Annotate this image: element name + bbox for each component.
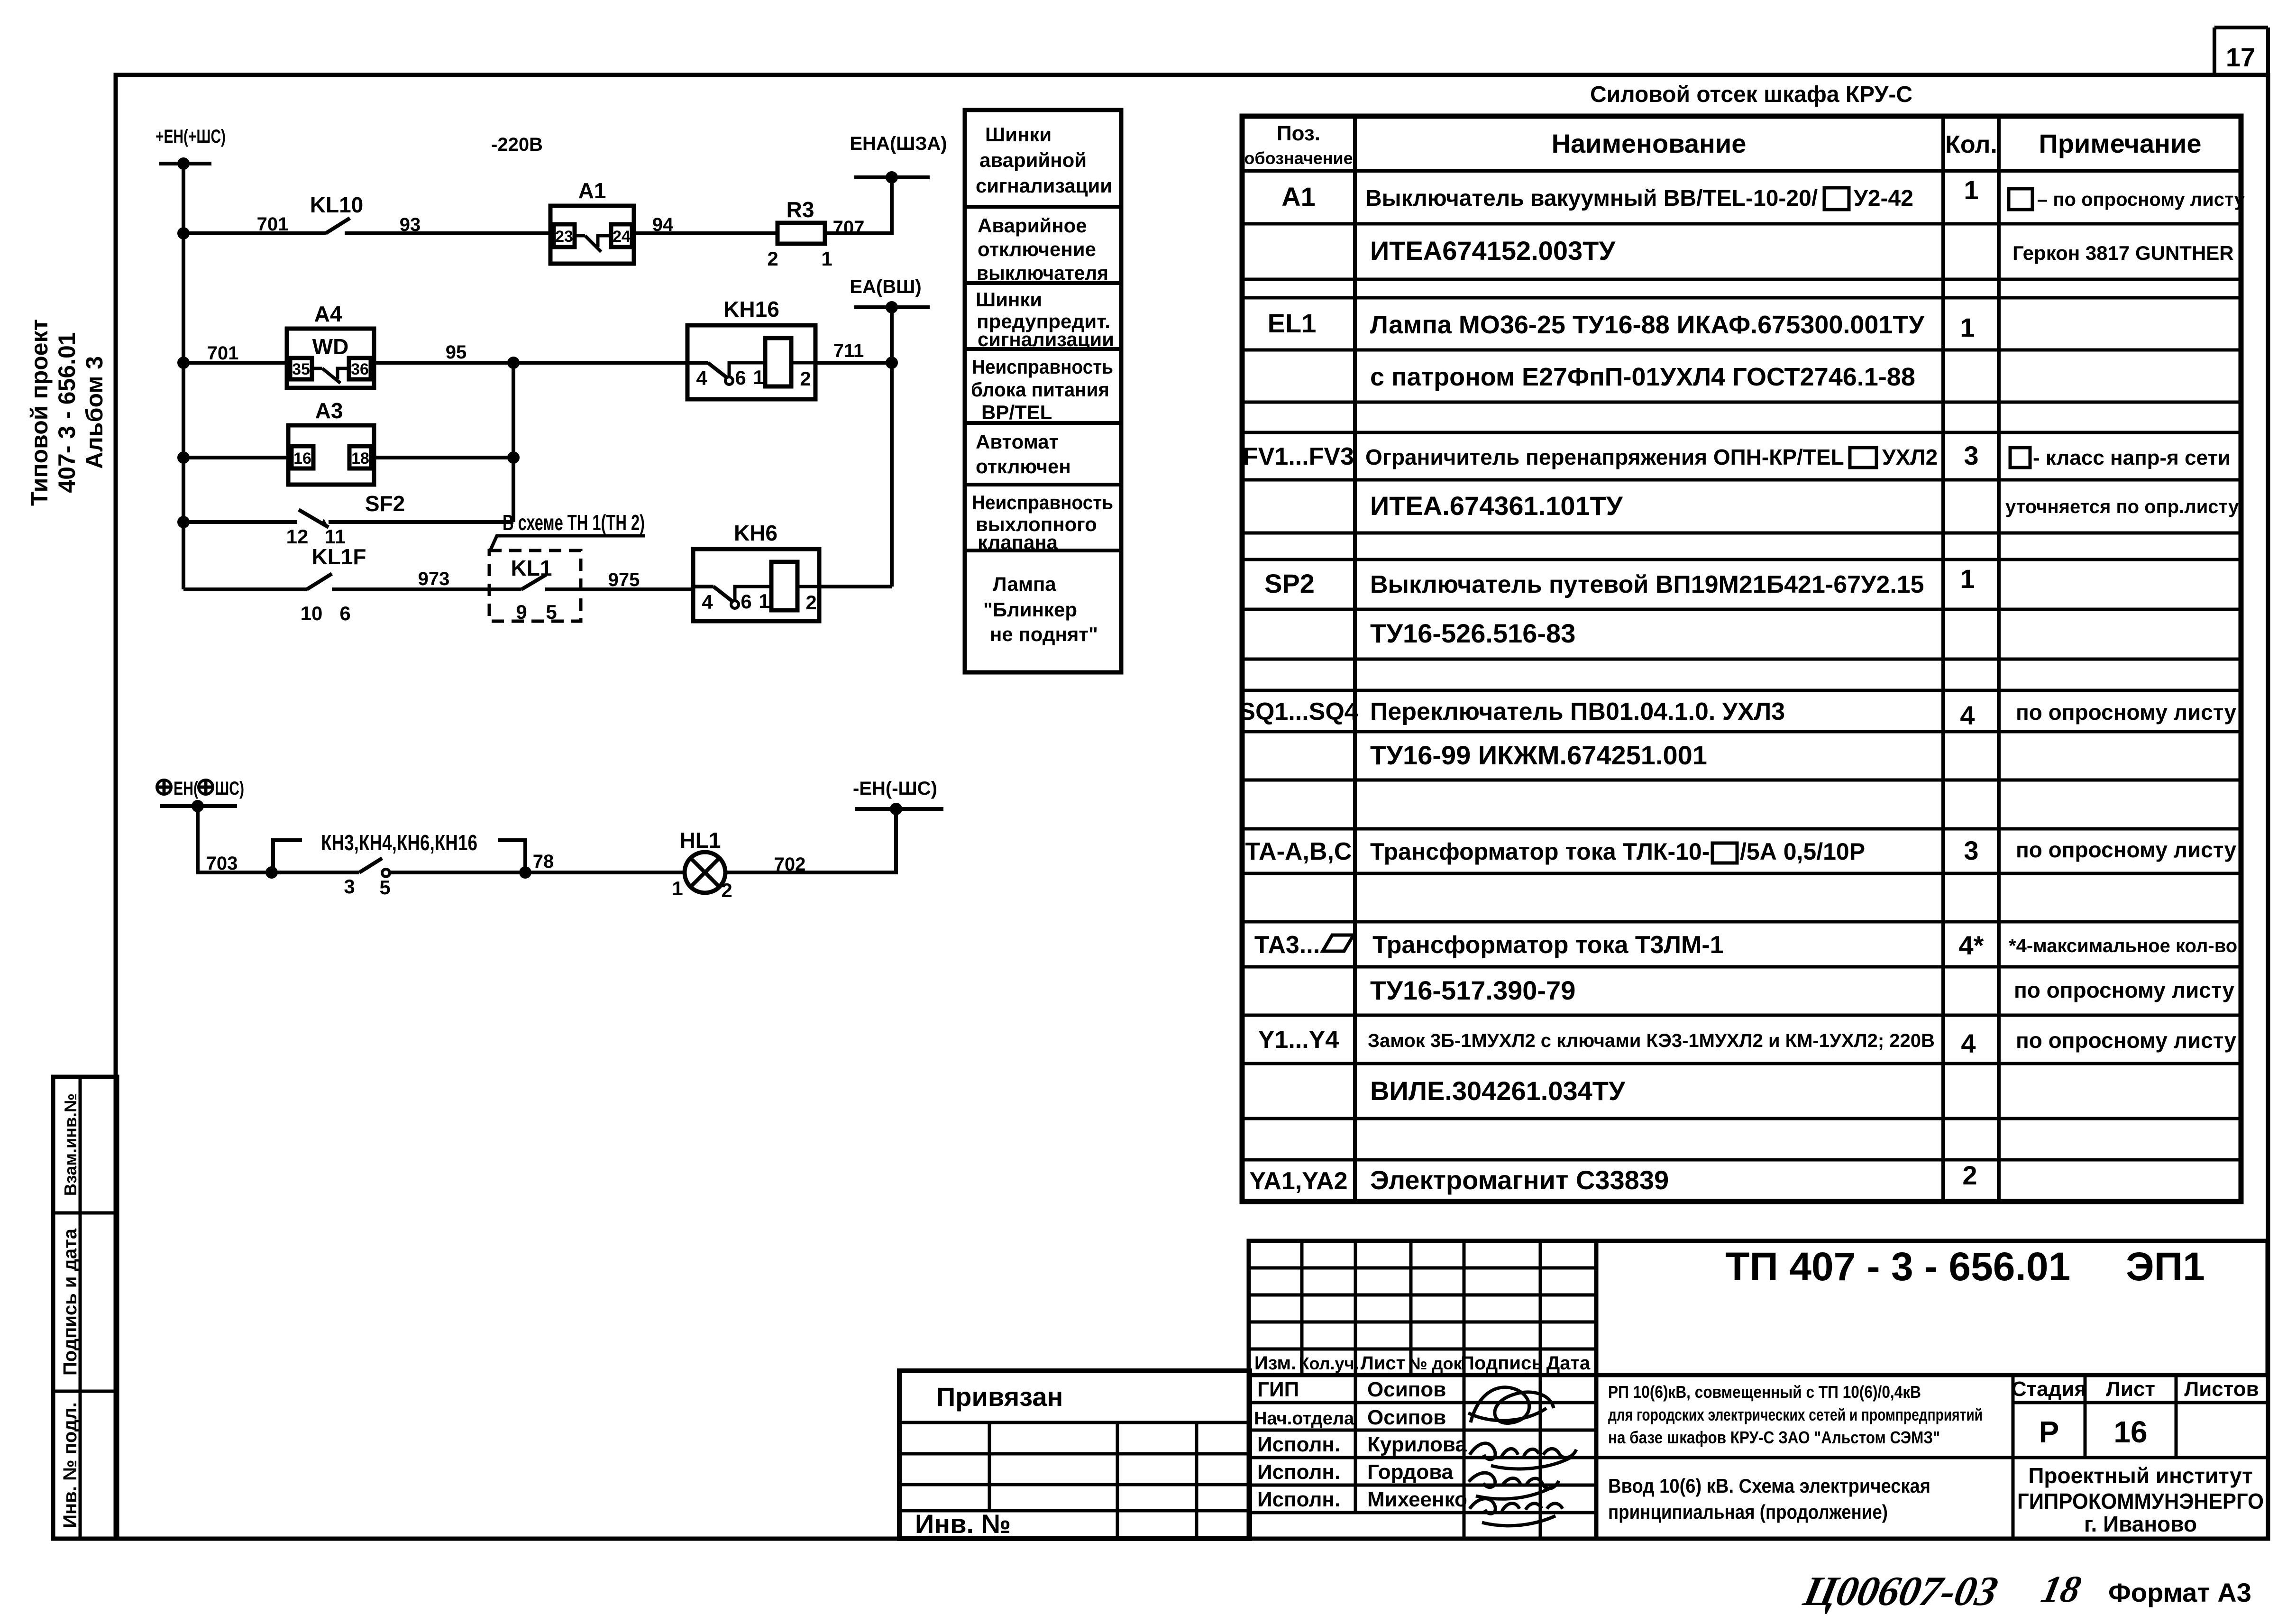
wire 707 — [825, 177, 892, 233]
svg-text:ГИП: ГИП — [1257, 1378, 1299, 1401]
svg-text:10: 10 — [301, 602, 323, 624]
svg-text:ТА3...: ТА3... — [1254, 931, 1320, 959]
svg-text:Лист: Лист — [1361, 1353, 1406, 1374]
sidebar project label (rotated) — [26, 319, 108, 506]
power supply unit A4 — [287, 302, 374, 388]
svg-text:Дата: Дата — [1546, 1353, 1591, 1374]
svg-text:701: 701 — [207, 343, 239, 364]
table header — [1244, 122, 2201, 168]
svg-text:SP2: SP2 — [1264, 569, 1315, 598]
svg-text:Листов: Листов — [2184, 1377, 2259, 1401]
svg-text:17: 17 — [2226, 42, 2255, 72]
svg-text:Аварийное: Аварийное — [978, 214, 1087, 237]
handwritten inventory number — [1799, 1569, 2085, 1615]
svg-text:16: 16 — [2113, 1415, 2147, 1449]
switch unit A1 — [550, 178, 634, 264]
svg-text:Взам.инв.№: Взам.инв.№ — [61, 1093, 80, 1196]
svg-text:KH6: KH6 — [734, 521, 778, 545]
wire 701 row2 — [183, 361, 287, 365]
wire 973 — [332, 587, 489, 591]
svg-text:SF2: SF2 — [365, 491, 405, 516]
svg-text:У2-42: У2-42 — [1854, 186, 1913, 211]
svg-text:HL1: HL1 — [680, 828, 721, 853]
contact КН3,КН4,КН6,КН16 — [321, 830, 477, 899]
svg-text:Осипов: Осипов — [1367, 1378, 1446, 1401]
svg-text:Электромагнит С33839: Электромагнит С33839 — [1370, 1165, 1669, 1195]
svg-text:Привязан: Привязан — [936, 1382, 1063, 1412]
svg-text:№ док.: № док. — [1409, 1354, 1467, 1373]
title block document number — [1596, 1241, 2268, 1375]
svg-text:ТА-А,В,С: ТА-А,В,С — [1245, 838, 1352, 865]
svg-text:по опросному листу: по опросному листу — [2014, 978, 2235, 1002]
wire vertical bus from +ЕН — [182, 164, 185, 589]
svg-text:Кол.уч.: Кол.уч. — [1299, 1354, 1359, 1373]
svg-text:95: 95 — [446, 342, 467, 363]
relay KH6 — [693, 521, 819, 621]
svg-text:Лампа: Лампа — [993, 573, 1056, 595]
svg-text:5: 5 — [379, 876, 390, 899]
junction node wire95/A3 — [507, 357, 520, 369]
svg-text:сигнализации: сигнализации — [976, 174, 1112, 197]
svg-text:Инв. № подл.: Инв. № подл. — [60, 1402, 81, 1528]
svg-text:выключателя: выключателя — [977, 262, 1108, 284]
svg-text:4*: 4* — [1959, 930, 1984, 960]
svg-text:2: 2 — [1962, 1160, 1977, 1190]
svg-text:Автомат: Автомат — [976, 431, 1059, 453]
svg-text:Исполн.: Исполн. — [1257, 1488, 1340, 1511]
svg-text:Неисправность: Неисправность — [972, 491, 1113, 514]
svg-text:принципиальная (продолжение): принципиальная (продолжение) — [1608, 1501, 1888, 1523]
svg-text:г. Иваново: г. Иваново — [2084, 1512, 2197, 1536]
svg-text:BP/TEL: BP/TEL — [981, 401, 1052, 423]
svg-text:Исполн.: Исполн. — [1257, 1433, 1340, 1456]
table column 4 entries — [2005, 189, 2245, 1053]
svg-text:Ц00607-03: Ц00607-03 — [1799, 1569, 2002, 1615]
contact KL10 — [310, 193, 363, 233]
title block revision table — [1249, 1241, 1596, 1375]
svg-text:Геркон 3817 GUNTHER: Геркон 3817 GUNTHER — [2012, 242, 2234, 264]
wire A3 to riser — [374, 456, 513, 459]
legend annotation box — [965, 110, 1121, 672]
svg-text:973: 973 — [418, 569, 450, 589]
svg-text:Нач.отдела: Нач.отдела — [1254, 1409, 1354, 1429]
svg-text:Ввод 10(6) кВ. Схема электриче: Ввод 10(6) кВ. Схема электрическая — [1608, 1475, 1930, 1497]
wire EA vertical — [890, 307, 894, 587]
svg-text:Формат А3: Формат А3 — [2108, 1578, 2251, 1607]
svg-text:2: 2 — [767, 248, 778, 270]
svg-text:4: 4 — [1960, 700, 1975, 730]
svg-text:УХЛ2: УХЛ2 — [1882, 445, 1938, 469]
svg-text:обозначение: обозначение — [1244, 148, 1353, 168]
node ЕНА(ШЗА) — [850, 133, 947, 184]
svg-text:ВИЛЕ.304261.034ТУ: ВИЛЕ.304261.034ТУ — [1370, 1076, 1626, 1106]
svg-text:клапана: клапана — [978, 531, 1058, 553]
svg-text:Наименование: Наименование — [1552, 128, 1747, 158]
svg-text:Курилова: Курилова — [1367, 1433, 1467, 1456]
svg-text:Ограничитель перенапряжения ОП: Ограничитель перенапряжения ОПН-КР/TEL — [1365, 445, 1844, 469]
wire 702 — [725, 809, 896, 872]
svg-text:703: 703 — [206, 853, 238, 874]
svg-text:ЕНА(ШЗА): ЕНА(ШЗА) — [850, 133, 947, 154]
svg-text:-220В: -220В — [491, 134, 543, 155]
title block description — [1596, 1375, 2013, 1539]
svg-text:93: 93 — [400, 214, 421, 235]
svg-text:2: 2 — [800, 367, 811, 390]
svg-text:36: 36 — [351, 360, 369, 378]
svg-text:/5А 0,5/10Р: /5А 0,5/10Р — [1740, 838, 1865, 865]
svg-text:6: 6 — [741, 590, 751, 613]
svg-text:ТУ16-526.516-83: ТУ16-526.516-83 — [1370, 618, 1575, 648]
relay KH16 — [687, 297, 815, 399]
svg-text:Выключатель путевой ВП19М21Б42: Выключатель путевой ВП19М21Б421-67У2.15 — [1370, 571, 1924, 598]
svg-text:1: 1 — [753, 366, 764, 388]
svg-text:ИТЕА674152.003ТУ: ИТЕА674152.003ТУ — [1370, 236, 1616, 266]
svg-text:2: 2 — [805, 591, 816, 614]
svg-text:Инв. №: Инв. № — [915, 1509, 1011, 1539]
wire 701 row1 — [183, 231, 326, 235]
svg-text:Гордова: Гордова — [1367, 1460, 1454, 1484]
svg-text:975: 975 — [608, 569, 640, 590]
table column 2 entries — [1365, 186, 1938, 1195]
wire to contact — [272, 871, 359, 874]
svg-text:1: 1 — [1960, 312, 1975, 342]
svg-text:6: 6 — [735, 367, 746, 389]
svg-text:707: 707 — [833, 217, 865, 238]
svg-text:4: 4 — [1961, 1028, 1976, 1058]
svg-text:отключение: отключение — [978, 238, 1096, 260]
svg-text:24: 24 — [613, 228, 631, 246]
unit A3 — [288, 398, 374, 485]
svg-text:5: 5 — [546, 601, 557, 623]
svg-text:-ЕН(-ШС): -ЕН(-ШС) — [853, 778, 937, 799]
svg-text:Кол.: Кол. — [1945, 131, 1997, 158]
svg-text:2: 2 — [721, 879, 732, 901]
svg-text:Примечание: Примечание — [2039, 128, 2201, 158]
relay contact KL1 (dashed box, in TH1/TH2 circuit) — [489, 551, 581, 623]
svg-text:сигнализации: сигнализации — [978, 328, 1114, 350]
svg-text:R3: R3 — [787, 197, 814, 222]
svg-text:6: 6 — [339, 602, 350, 624]
svg-text:на базе шкафов КРУ-С ЗАО "Альс: на базе шкафов КРУ-С ЗАО "Альстом СЭМЗ" — [1608, 1428, 1940, 1447]
title block signature rows — [1249, 1375, 1596, 1539]
wire 703 — [198, 806, 272, 872]
svg-text:для городских электрических се: для городских электрических сетей и пром… — [1608, 1405, 1983, 1424]
svg-text:ЕА(ВШ): ЕА(ВШ) — [850, 276, 921, 297]
svg-text:Неисправность: Неисправность — [972, 356, 1113, 378]
wire row3 to A3 — [183, 456, 288, 459]
svg-text:- класс напр-я сети: - класс напр-я сети — [2033, 446, 2231, 469]
wire row4 — [183, 520, 297, 524]
resistor R3 — [767, 197, 832, 270]
svg-text:по опросному листу: по опросному листу — [2016, 700, 2237, 725]
svg-text:не поднят": не поднят" — [990, 623, 1098, 645]
svg-text:отключен: отключен — [976, 455, 1071, 477]
svg-text:3: 3 — [1964, 440, 1978, 470]
svg-text:Подпись и дата: Подпись и дата — [60, 1228, 81, 1376]
svg-text:Исполн.: Исполн. — [1257, 1460, 1340, 1484]
svg-text:с патроном Е27ФпП-01УХЛ4 ГОСТ: с патроном Е27ФпП-01УХЛ4 ГОСТ2746.1-88 — [1370, 363, 1915, 391]
svg-text:Стадия: Стадия — [2012, 1377, 2086, 1401]
svg-text:ТУ16-517.390-79: ТУ16-517.390-79 — [1370, 975, 1575, 1005]
svg-text:Осипов: Осипов — [1367, 1406, 1446, 1429]
sheet number box 17 — [2214, 28, 2268, 75]
svg-text:4: 4 — [702, 591, 713, 613]
svg-text:A4: A4 — [314, 302, 342, 326]
svg-text:Альбом 3: Альбом 3 — [81, 356, 108, 469]
svg-text:Трансформатор тока ТЛК-10-: Трансформатор тока ТЛК-10- — [1370, 838, 1710, 865]
svg-text:YA1,YA2: YA1,YA2 — [1249, 1167, 1347, 1195]
svg-text:711: 711 — [833, 340, 864, 361]
wire 78 — [390, 871, 685, 874]
svg-text:A1: A1 — [578, 178, 606, 203]
svg-text:– по опросному листу: – по опросному листу — [2037, 189, 2245, 210]
svg-text:ШС): ШС) — [215, 778, 244, 799]
svg-text:702: 702 — [774, 854, 806, 875]
wire 93 — [345, 231, 550, 235]
svg-text:9: 9 — [516, 601, 527, 623]
svg-text:ГИПРОКОММУНЭНЕРГО: ГИПРОКОММУНЭНЕРГО — [2017, 1489, 2264, 1514]
svg-text:по опросному листу: по опросному листу — [2016, 1028, 2237, 1053]
wire 711 — [815, 361, 892, 365]
svg-text:Шинки: Шинки — [985, 123, 1052, 146]
svg-text:4: 4 — [696, 367, 707, 389]
node -ЕН(-ШС) — [853, 778, 943, 815]
svg-text:WD: WD — [312, 334, 349, 359]
contact KL1F — [301, 544, 366, 624]
wire row5 from bus — [183, 587, 307, 591]
svg-text:аварийной: аварийной — [979, 149, 1087, 171]
svg-text:А1: А1 — [1281, 182, 1316, 211]
svg-text:78: 78 — [533, 851, 554, 872]
svg-text:Поз.: Поз. — [1277, 122, 1320, 145]
svg-text:3: 3 — [344, 875, 355, 898]
svg-text:Типовой проект: Типовой проект — [26, 319, 53, 506]
leader В схеме ТН 1(ТН 2) — [490, 510, 645, 551]
svg-text:1: 1 — [1964, 175, 1978, 205]
svg-text:23: 23 — [555, 228, 573, 246]
node +ЕН(+ШС) lamp circuit — [157, 778, 244, 812]
svg-text:94: 94 — [652, 214, 674, 235]
svg-text:Проектный институт: Проектный институт — [2028, 1463, 2252, 1488]
svg-text:Выключатель вакуумный ВВ/TEL-1: Выключатель вакуумный ВВ/TEL-10-20/ — [1365, 186, 1818, 211]
table column 1 entries — [1239, 182, 1358, 1195]
svg-text:ЕН(: ЕН( — [174, 778, 199, 799]
svg-text:Изм.: Изм. — [1254, 1353, 1296, 1374]
svg-text:РП 10(6)кВ, совмещенный с ТП 1: РП 10(6)кВ, совмещенный с ТП 10(6)/0,4кВ — [1608, 1382, 1921, 1402]
svg-text:18: 18 — [351, 450, 369, 468]
svg-text:SQ1...SQ4: SQ1...SQ4 — [1239, 698, 1358, 725]
svg-text:блока питания: блока питания — [971, 378, 1109, 401]
svg-text:ТУ16-99 ИКЖМ.674251.001: ТУ16-99 ИКЖМ.674251.001 — [1370, 740, 1707, 770]
svg-text:701: 701 — [257, 214, 289, 235]
svg-text:Трансформатор тока Т3ЛМ-1: Трансформатор тока Т3ЛМ-1 — [1372, 931, 1724, 959]
svg-text:*4-максимальное кол-во: *4-максимальное кол-во — [2009, 936, 2237, 956]
svg-text:Переключатель ПВ01.04.1.0. УХЛ: Переключатель ПВ01.04.1.0. УХЛ3 — [1370, 698, 1785, 725]
wire riser x1083 — [512, 363, 515, 522]
svg-text:3: 3 — [1964, 835, 1978, 865]
svg-text:Силовой отсек шкафа КРУ-С: Силовой отсек шкафа КРУ-С — [1590, 82, 1912, 107]
signature squiggles — [1468, 1387, 1576, 1526]
svg-text:407- 3 - 656.01: 407- 3 - 656.01 — [54, 332, 80, 493]
group bracket right — [498, 840, 525, 872]
svg-text:12: 12 — [286, 525, 309, 548]
table column 3 entries — [1959, 175, 1984, 1190]
title block stage/sheet — [2012, 1375, 2268, 1536]
svg-text:FV1...FV3: FV1...FV3 — [1243, 443, 1354, 470]
svg-text:1: 1 — [821, 248, 832, 270]
svg-text:В схеме ТН 1(ТН 2): В схеме ТН 1(ТН 2) — [503, 510, 645, 535]
svg-text:Y1...Y4: Y1...Y4 — [1258, 1026, 1339, 1054]
svg-text:Михеенко: Михеенко — [1367, 1488, 1467, 1511]
svg-text:16: 16 — [293, 450, 311, 468]
svg-text:EL1: EL1 — [1268, 308, 1317, 338]
svg-text:Лист: Лист — [2106, 1377, 2155, 1401]
svg-text:1: 1 — [759, 590, 769, 612]
svg-text:KH16: KH16 — [723, 297, 779, 321]
svg-text:Шинки: Шинки — [976, 288, 1042, 311]
parallelogram symbol after ТА3 — [1323, 935, 1354, 951]
node ЕА(ВШ) — [850, 276, 930, 313]
svg-text:Замок 3Б-1МУХЛ2 с ключами КЭ3-: Замок 3Б-1МУХЛ2 с ключами КЭ3-1МУХЛ2 и К… — [1368, 1030, 1935, 1051]
wire 975 — [581, 587, 693, 591]
svg-text:1: 1 — [1960, 564, 1975, 594]
svg-text:KL10: KL10 — [310, 193, 363, 217]
wire 94 — [632, 231, 778, 235]
breaker contact SF2 — [286, 491, 405, 548]
svg-text:KL1F: KL1F — [312, 544, 366, 569]
wire SF2 to riser — [329, 520, 513, 524]
sidebar attribute table — [53, 1077, 117, 1539]
svg-text:ИТЕА.674361.101ТУ: ИТЕА.674361.101ТУ — [1370, 491, 1623, 521]
svg-text:КН3,КН4,КН6,КН16: КН3,КН4,КН6,КН16 — [321, 830, 477, 855]
svg-text:"Блинкер: "Блинкер — [983, 598, 1077, 621]
svg-text:+ЕН(+ШС): +ЕН(+ШС) — [156, 126, 226, 147]
svg-text:35: 35 — [292, 360, 310, 378]
group bracket left — [273, 840, 302, 872]
left attach box Привязан — [899, 1371, 1250, 1539]
svg-text:Лампа МО36-25 ТУ16-88 ИКАФ.675: Лампа МО36-25 ТУ16-88 ИКАФ.675300.001ТУ — [1370, 311, 1925, 339]
svg-text:по опросному листу: по опросному листу — [2016, 837, 2237, 862]
svg-text:1: 1 — [672, 877, 683, 899]
svg-text:уточняется по опр.листу: уточняется по опр.листу — [2005, 496, 2239, 517]
node +ЕН(+ШС) — [156, 126, 226, 170]
component table grid — [1242, 116, 2241, 1202]
junction dots on bus — [177, 227, 190, 239]
svg-text:A3: A3 — [315, 398, 343, 423]
lamp HL1 — [672, 828, 732, 901]
wire 95 — [374, 361, 687, 365]
wire KH6 to EA riser — [819, 585, 892, 588]
svg-text:ТП 407 - 3 - 656.01 ЭП1: ТП 407 - 3 - 656.01 ЭП1 — [1725, 1244, 2205, 1289]
svg-text:Подпись: Подпись — [1461, 1353, 1543, 1374]
svg-text:Р: Р — [2039, 1415, 2059, 1449]
